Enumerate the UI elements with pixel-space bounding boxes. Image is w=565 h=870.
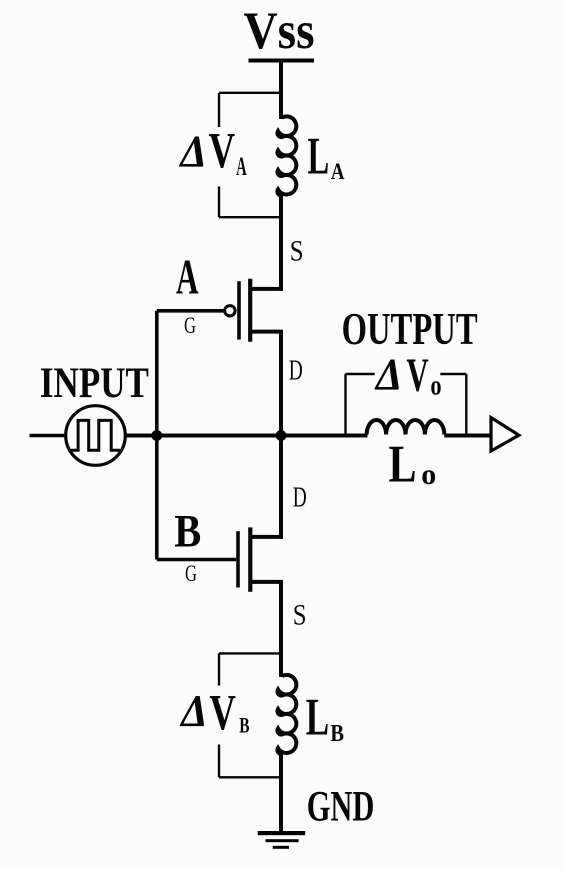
- ground bar 2: [266, 839, 299, 842]
- svg-text:S: S: [293, 599, 307, 632]
- bracket delta-Vo left stub: [346, 373, 375, 375]
- svg-text:S: S: [290, 235, 304, 268]
- svg-text:o: o: [421, 458, 436, 491]
- svg-text:G: G: [184, 313, 196, 338]
- ground symbol: [258, 831, 306, 849]
- svg-text:OUTPUT: OUTPUT: [342, 304, 478, 354]
- svg-text:INPUT: INPUT: [40, 360, 149, 407]
- ground bar 1: [258, 831, 306, 835]
- bracket delta-Vo left vertical: [344, 374, 346, 435]
- wire input left lead: [30, 434, 65, 438]
- PMOS drain connection: [249, 330, 283, 334]
- svg-text:L: L: [308, 127, 330, 185]
- wire LB to ground: [279, 754, 283, 835]
- svg-text:B: B: [174, 506, 201, 558]
- bracket delta-VA top stub: [219, 92, 281, 94]
- bracket delta-VA left vertical lower: [218, 187, 220, 218]
- bracket delta-VB left vertical lower: [218, 745, 220, 778]
- inductor LA: [277, 116, 296, 195]
- wire inductor Lo to output port: [444, 434, 491, 438]
- bracket delta-Vo right stub: [440, 373, 466, 375]
- label LA: [308, 127, 345, 185]
- transistor PMOS A: [157, 279, 283, 342]
- NMOS source connection: [249, 580, 283, 584]
- NMOS gate wire: [157, 558, 236, 562]
- label Lo: [389, 436, 437, 494]
- svg-text:GND: GND: [307, 784, 375, 831]
- svg-text:o: o: [430, 371, 441, 402]
- svg-text:B: B: [239, 713, 250, 738]
- inductor Lo: [367, 420, 445, 435]
- svg-text:V: V: [209, 685, 236, 741]
- wire main horizontal: [125, 434, 367, 438]
- svg-text:D: D: [293, 483, 307, 514]
- svg-text:L: L: [389, 436, 417, 494]
- wire output node to NMOS drain: [279, 436, 283, 539]
- output port triangle: [491, 418, 519, 452]
- NMOS gate plate: [236, 531, 240, 587]
- transistor NMOS B: [157, 527, 283, 591]
- svg-text:Δ: Δ: [179, 126, 207, 177]
- svg-text:B: B: [330, 721, 344, 747]
- inductor LB: [277, 675, 296, 754]
- power rail bar: [249, 59, 315, 63]
- svg-text:Δ: Δ: [179, 685, 207, 736]
- svg-text:Vss: Vss: [244, 2, 315, 60]
- wire Vss bar to inductor LA: [279, 60, 283, 119]
- PMOS gate bubble: [225, 306, 235, 316]
- bracket delta-VB top stub: [219, 652, 281, 654]
- wire NMOS source down: [279, 582, 283, 677]
- wire gate branch vertical: [155, 311, 159, 560]
- source circle (pulse generator): [66, 406, 126, 466]
- svg-text:L: L: [306, 689, 329, 747]
- label delta-Vo: [374, 349, 442, 402]
- wire LA to PMOS source: [279, 196, 283, 291]
- NMOS channel plate: [248, 527, 252, 591]
- svg-text:A: A: [176, 249, 199, 305]
- svg-text:D: D: [289, 356, 303, 387]
- svg-text:V: V: [209, 124, 236, 180]
- bracket delta-VA left vertical upper: [218, 93, 220, 127]
- PMOS gate plate: [237, 281, 241, 339]
- PMOS channel plate: [248, 279, 252, 342]
- wire PMOS drain to output node: [279, 332, 283, 437]
- PMOS gate wire: [157, 309, 225, 313]
- svg-text:A: A: [236, 152, 247, 181]
- NMOS drain connection: [249, 535, 283, 539]
- ground bar 3: [273, 846, 289, 849]
- bracket delta-Vo right vertical: [465, 374, 467, 435]
- svg-text:A: A: [331, 159, 345, 184]
- PMOS source connection: [249, 287, 283, 291]
- label delta-VB: [179, 685, 250, 741]
- svg-text:V: V: [406, 349, 429, 402]
- pulse waveform: [70, 420, 120, 450]
- node input junction: [151, 430, 162, 441]
- label LB: [306, 689, 344, 747]
- label delta-VA: [179, 124, 247, 181]
- svg-text:G: G: [185, 561, 197, 586]
- bracket delta-VB left vertical upper: [218, 653, 220, 685]
- svg-text:Δ: Δ: [374, 349, 402, 400]
- node output junction: [276, 430, 287, 441]
- bracket delta-VA bottom stub: [219, 216, 281, 218]
- bracket delta-VB bottom stub: [219, 776, 281, 778]
